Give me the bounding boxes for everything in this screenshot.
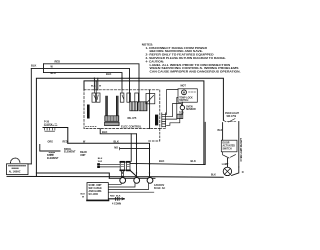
bus line long [7,175,223,178]
svg-text:SU-1000: SU-1000 [89,193,99,196]
wire below box 1 [100,129,136,134]
door switch contact [223,152,236,158]
receptacle circles [120,178,153,184]
clock hatch block 1 [105,116,119,122]
conn wire [109,198,125,200]
terminal blobs and wires [97,163,100,165]
wire left drop [30,68,32,163]
wire box right drop [149,90,151,129]
svg-text:NO: NO [114,145,118,149]
svg-text:BLK: BLK [31,64,36,68]
element label row [47,148,87,160]
diagonal wire [130,170,136,176]
svg-text:SWITCH: SWITCH [223,149,232,151]
wire y144 [68,143,150,177]
wire to door switch [222,123,224,141]
wire lamp right [232,167,239,175]
P30 connector [43,128,68,144]
svg-text:60 HZ. AC: 60 HZ. AC [154,187,165,190]
component rects row inside box top [92,90,100,102]
svg-text:AL 1/60HZ: AL 1/60HZ [9,171,21,174]
svg-text:BLK: BLK [211,174,216,177]
TOD element [177,110,183,119]
svg-text:BLK: BLK [218,129,223,132]
wire link [43,64,45,73]
svg-text:OVEN: OVEN [186,106,193,108]
svg-text:BLK: BLK [116,195,121,197]
wire stub b [95,81,97,90]
bake element wire [40,145,60,152]
wire stub a [93,78,95,90]
junction dots mid [122,143,151,177]
wire y148 [120,148,150,150]
svg-text:BLK: BLK [106,72,111,76]
svg-text:BLK: BLK [51,71,56,75]
oven light switch text [225,113,240,118]
svg-text:ELEMENT: ELEMENT [64,151,76,154]
svg-text:DOOR: DOOR [223,143,230,145]
svg-text:BLK: BLK [159,159,164,163]
svg-text:MOT: MOT [181,85,187,88]
temp lock switch box [178,89,197,102]
bus line y178 [109,177,155,179]
svg-text:BLK: BLK [102,130,107,134]
dot row bottom of box [86,125,97,127]
dashed stub right of box [160,127,166,129]
selector switch box 2 [126,161,130,171]
selector switch box 1 [120,161,124,171]
wire drop to circle2 [136,134,138,178]
clock coil U right [117,96,118,116]
oven lamp [223,167,231,175]
svg-text:N: N [242,171,244,174]
svg-text:SWITCH: SWITCH [179,100,188,102]
svg-text:BLK: BLK [191,159,196,163]
svg-text:RE-475: RE-475 [128,116,137,120]
receptacle stems [121,171,123,178]
wire y163 to right [130,122,205,164]
surf box right wires [109,183,154,192]
svg-text:ELEMENT: ELEMENT [47,157,59,160]
wire stub c [97,78,99,90]
comb connector bar [155,115,158,126]
wire bus A [36,78,223,176]
wire drop to switch box2 [130,134,132,162]
clock hatch block 2 [105,122,120,125]
P30 connector text [44,121,58,127]
tiny labels left of switches [98,158,103,163]
power rating labels [154,184,165,190]
junction dots top [43,68,140,82]
dashed latch outline [148,129,160,141]
surf box left labels [81,194,86,199]
wire L3 [44,73,123,90]
svg-text:ACTUATED: ACTUATED [223,145,236,148]
switch contact mid rects [120,90,130,102]
clock coil U left [106,96,107,116]
svg-text:SW-1759: SW-1759 [227,116,237,118]
svg-text:SENSOR: SENSOR [186,109,196,111]
svg-text:RED: RED [55,60,61,64]
svg-text:ELEC CONTROL: ELEC CONTROL [121,125,142,129]
wire bus B [84,81,204,165]
relay coil A [130,90,139,111]
oven sensor [180,102,196,111]
svg-text:BLK: BLK [114,140,119,144]
svg-text:4 CONN: 4 CONN [112,203,121,206]
wire red L1 [44,64,140,90]
svg-text:RED: RED [110,195,115,197]
svg-text:OVEN LIGHT: OVEN LIGHT [225,113,240,115]
door actuated switch box [221,140,237,152]
notes text block [142,42,241,73]
svg-text:RED: RED [63,140,68,143]
svg-text:BLK: BLK [91,86,96,88]
relay coil B [139,90,147,111]
wire blk L2 [31,68,129,89]
bus line y173 [36,173,109,178]
surf unit box [87,183,109,201]
svg-text:TEMP LOCK: TEMP LOCK [179,97,193,99]
comb wires to temp lock [166,90,178,115]
oven light switch contact [223,119,235,122]
svg-text:ORG: ORG [48,140,54,143]
svg-text:BLK: BLK [81,194,86,196]
svg-text:M: M [183,90,185,94]
svg-text:W-R: W-R [98,161,103,163]
svg-text:CAN CAUSE IMPROPER AND DANGERO: CAN CAUSE IMPROPER AND DANGEROUS OPERATI… [150,70,241,74]
door lock motor box [7,158,32,175]
TOD wires [167,119,180,126]
switch rect right [146,94,155,104]
svg-text:OVEN LAMP RECEPT: OVEN LAMP RECEPT [240,137,243,161]
svg-text:UNIT: UNIT [80,154,86,157]
comb connector ladder [162,113,166,127]
control box dashed [84,90,160,129]
svg-text:LAMP: LAMP [222,163,229,166]
thick bar element [87,105,90,119]
